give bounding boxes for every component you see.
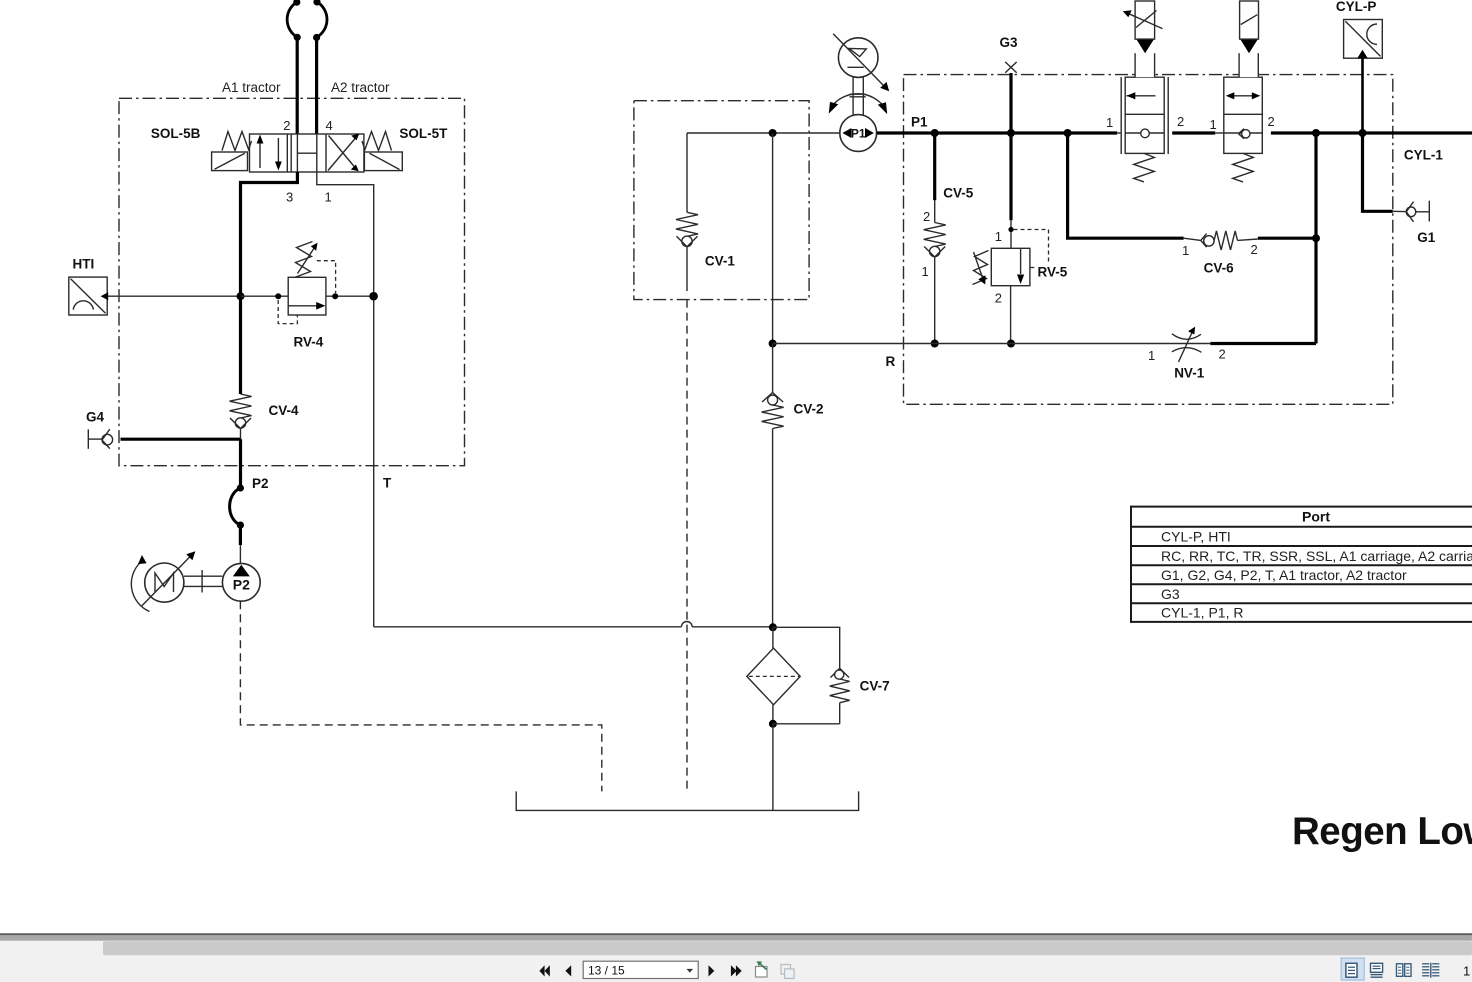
tank: [516, 791, 858, 810]
wire A2 tractor line down to valve port 4: [315, 38, 318, 134]
bypass check valve CV-7: [773, 627, 840, 668]
junction node filter top: [769, 623, 777, 631]
motor variable arrow: [141, 555, 191, 606]
wire riser NV-1/CV-6 to main line (bold): [1314, 133, 1317, 344]
port G3 plugged (X): [1005, 62, 1017, 73]
port legend table: [1131, 506, 1472, 623]
solenoid SOL-5B coil: [212, 152, 248, 171]
wire CV-1 drain dashed to tank: [686, 300, 688, 792]
RV-4 pilot dashed lines: [278, 300, 297, 324]
wire to tank: [772, 724, 774, 811]
wire T line horizontal with crossover jump: [374, 626, 682, 628]
wire R line: [773, 343, 1211, 345]
wire filter to bottom junction: [772, 705, 774, 724]
solenoid valve SOL-5 body (4/3 directional valve): [250, 134, 364, 172]
RV-5 spring with adjustment arrow: [973, 251, 989, 285]
check valve CV-1: [676, 212, 698, 236]
P1 bidirectional rotation arrows: [832, 94, 885, 107]
wire hose to pump inlet: [239, 525, 242, 545]
wire RV-5 branch (bold): [1009, 133, 1012, 220]
wire RV-5 to R line: [1010, 286, 1012, 344]
valve right position: crossed arrows: [325, 134, 327, 172]
junction node RV-5 / R line: [1007, 340, 1015, 348]
valve 2 double arrow: [1231, 95, 1255, 97]
spring left of valve: [222, 132, 252, 151]
wire G4 to CV-4 branch (bold): [121, 438, 241, 441]
junction node on CV-4 branch at HTI/RV-4 line: [237, 292, 245, 300]
wire G1 branch (bold): [1363, 133, 1393, 211]
valve 2 solenoid box: [1240, 1, 1259, 39]
valve 1 proportional crossed arrow: [1128, 13, 1163, 28]
junction node filter bottom: [769, 720, 777, 728]
wire CV-2 to filter junction: [772, 429, 774, 628]
wire main suction line to pump P1: [687, 132, 840, 134]
svg-text:1: 1: [1463, 964, 1470, 979]
pump P1 (bidirectional): [840, 115, 877, 152]
cartridge valve 1 (proportional solenoid): [1120, 77, 1122, 154]
junction node on T line at RV-4 output: [369, 292, 378, 301]
junction node CV-5 branch: [931, 129, 939, 137]
needle valve NV-1: [1172, 334, 1201, 339]
wire A1 tractor line down to valve port 2: [296, 37, 299, 134]
P1 shaft: [852, 77, 854, 114]
node P2 hose bottom: [237, 522, 244, 529]
valve 1 solenoid box: [1135, 1, 1155, 39]
wire CV-6 port 2 to riser (bold): [1258, 237, 1316, 240]
node P2 hose top: [237, 484, 244, 491]
transducer CYL-P: [1344, 20, 1383, 59]
relief valve RV-5: [991, 248, 1030, 285]
electric motor for P2: [145, 563, 184, 602]
spring right of valve: [362, 132, 392, 151]
wire R line branch to CV-2: [772, 344, 774, 393]
cartridge valve 2 (on/off solenoid): [1224, 77, 1263, 153]
port G1 test point: [1406, 207, 1416, 217]
RV-5 pilot dashed line: [1014, 230, 1049, 264]
enclosure box right assembly (dash-dot): [904, 75, 1393, 405]
motor shaft coupling: [184, 575, 223, 577]
enclosure box CV-1 (dash-dot): [634, 101, 809, 300]
indicator HTI (high temperature indicator): [69, 277, 107, 315]
RV-4 spring diagonal with adjustment arrow: [295, 242, 313, 278]
valve 2 pilot check: [1239, 129, 1245, 134]
solenoid SOL-5T coil: [364, 152, 402, 171]
check valve CV-6: [1201, 234, 1207, 241]
svg-text:13 / 15: 13 / 15: [588, 963, 625, 977]
wire G3 to main line (bold): [1009, 73, 1012, 133]
junction node CV-5 / R line: [931, 340, 939, 348]
junction node NV-1/CV-6 right branch: [1312, 129, 1320, 137]
port G4 test point: [87, 429, 89, 448]
pilot node right of RV-4: [332, 293, 338, 299]
valve 2 solenoid armature triangle: [1240, 39, 1258, 53]
pilot node RV-5: [1008, 227, 1013, 232]
valve left position: parallel arrows: [259, 141, 261, 168]
valve 2 spring below: [1233, 153, 1254, 182]
wire CV-2 branch down to R line: [772, 133, 774, 344]
valve 2 solenoid stem: [1239, 53, 1258, 77]
pump P1 variable motor symbol: [838, 38, 878, 78]
check valve CV-5: [924, 223, 946, 247]
motor rotation arrow: [131, 560, 149, 612]
relief valve RV-4: [288, 277, 326, 315]
wire valve port 1 to T line: [317, 172, 374, 627]
wire CV-1 branch from main line: [686, 133, 688, 212]
wire pump P2 suction (dashed) to tank: [240, 601, 601, 791]
pump P2: [222, 563, 260, 601]
wire HTI junction through RV-4 to T line: [241, 295, 289, 297]
valve 1 solenoid stem: [1135, 53, 1155, 77]
wire NV-1 port 2 to riser (bold): [1210, 342, 1316, 345]
junction node CYL-P branch: [1359, 129, 1367, 137]
valve 2 solenoid slash: [1241, 15, 1258, 25]
valve centre position: blocked H: [297, 152, 316, 154]
wire valve port 3 to CV-4 branch (bold): [241, 172, 298, 394]
wire CV-5 to R line: [934, 257, 936, 344]
valve 1 solenoid armature triangle: [1136, 39, 1154, 53]
main pressure line P1 (bold): [877, 131, 1118, 134]
wire CYL-P branch with arrow (bold): [1361, 57, 1364, 133]
hose to pump P2 (flexible line): [230, 488, 241, 525]
check valve CV-2: [762, 393, 773, 403]
junction node G3/RV-5 branch: [1007, 129, 1015, 137]
wire CV-4 to P2 port (bold below G4 tee): [240, 429, 242, 441]
wire CV-5 branch (bold upper part): [933, 133, 936, 200]
junction node CV-2 / R line: [769, 340, 777, 348]
filter: [747, 648, 800, 705]
pilot node left of RV-4: [275, 293, 281, 299]
valve 1 spring below: [1134, 153, 1155, 182]
wire CV-1 to enclosure edge: [686, 247, 688, 291]
coupler A1/A2 tractor quick-disconnect: [287, 2, 297, 37]
wire HTI sense line with arrow: [108, 295, 241, 297]
junction node CV-2 branch on main line: [769, 129, 777, 137]
junction node CV-6 right: [1312, 234, 1320, 242]
check valve CV-4: [230, 394, 252, 418]
wire filter feed: [772, 627, 774, 648]
P1 motor variable arrow: [833, 34, 884, 86]
wire CV-6 branch from main line (bold): [1068, 133, 1184, 238]
junction node CV-6 branch: [1064, 129, 1072, 137]
enclosure box left assembly (dash-dot): [119, 98, 465, 465]
